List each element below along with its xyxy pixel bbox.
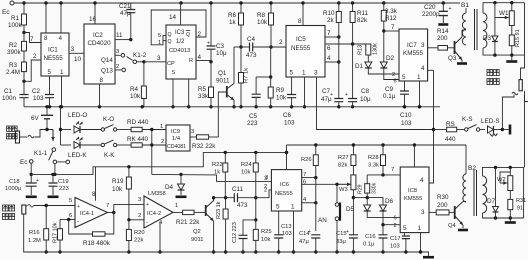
svg-text:47μ: 47μ (299, 239, 309, 245)
svg-text:R14: R14 (437, 28, 449, 35)
transistor Q1 9011 (233, 47, 235, 84)
svg-text:IC3: IC3 (175, 30, 185, 36)
svg-text:D4: D4 (165, 184, 174, 191)
svg-text:+: + (449, 6, 452, 12)
svg-text:R7 1k: R7 1k (244, 68, 250, 83)
svg-text:5: 5 (290, 70, 294, 77)
svg-text:Q2: Q2 (193, 229, 201, 235)
svg-text:R15 91: R15 91 (515, 29, 521, 47)
svg-text:Q: Q (186, 32, 190, 38)
svg-text:C5: C5 (249, 113, 258, 120)
switch K-K (81, 144, 102, 146)
svg-text:1k: 1k (229, 19, 237, 26)
svg-text:R6: R6 (228, 12, 237, 19)
svg-text:103: 103 (282, 231, 292, 237)
svg-text:1/4: 1/4 (172, 136, 181, 142)
svg-text:RK 440: RK 440 (127, 136, 149, 143)
op IC1 NE555 (41, 33, 69, 76)
svg-text:82k: 82k (357, 17, 368, 24)
switch K1-2 (127, 57, 133, 61)
wire right bus below jack (524, 95, 526, 167)
wire rail step to IC6 pin3 (152, 174, 272, 181)
svg-text:3: 3 (116, 49, 119, 55)
svg-text:IC1: IC1 (48, 47, 58, 54)
wire IC1 pin2 (24, 60, 41, 81)
svg-text:7: 7 (391, 167, 394, 173)
svg-text:C17: C17 (390, 236, 401, 242)
wire IC1 pin7 (24, 33, 41, 43)
capacitor C15 (352, 198, 354, 235)
svg-text:Q4: Q4 (448, 223, 457, 229)
wire IC8 pin3 (429, 211, 436, 213)
svg-text:130k: 130k (373, 43, 379, 55)
svg-text:IC6: IC6 (280, 182, 289, 188)
svg-text:8: 8 (100, 77, 104, 84)
svg-text:C11: C11 (232, 186, 244, 193)
svg-text:W1: W1 (499, 10, 509, 17)
svg-text:R27: R27 (338, 155, 349, 161)
wire IC4-2 pin4 (159, 222, 161, 252)
svg-text:R2: R2 (9, 42, 18, 49)
svg-text:D6: D6 (385, 198, 394, 205)
svg-text:C4: C4 (247, 36, 256, 43)
svg-text:10μ: 10μ (360, 96, 371, 103)
svg-text:R30: R30 (437, 194, 449, 201)
transformer B1 (462, 13, 466, 45)
svg-text:R23 1k: R23 1k (216, 201, 222, 219)
svg-text:1: 1 (417, 74, 421, 81)
svg-text:R3: R3 (9, 62, 18, 69)
wire B1 secondary bottom (483, 48, 525, 55)
node Q13 output (115, 69, 121, 71)
switch K-S (465, 128, 468, 131)
svg-text:0.1μ: 0.1μ (363, 242, 374, 248)
svg-text:2: 2 (394, 223, 397, 229)
svg-text:CD4081: CD4081 (167, 144, 186, 150)
svg-text:2: 2 (198, 31, 202, 38)
svg-text:330k: 330k (372, 182, 378, 194)
wire IC2 pin16 (94, 3, 96, 24)
label output socket (487, 70, 493, 76)
svg-text:82k: 82k (338, 163, 347, 169)
svg-text:3.3k: 3.3k (385, 8, 398, 15)
svg-text:R5: R5 (198, 86, 207, 93)
svg-text:R31: R31 (516, 198, 526, 204)
wire IC6 pin6 wiper (302, 183, 339, 185)
resistor R23 (225, 198, 227, 209)
capacitor C16 (382, 225, 384, 235)
resistor R21 (173, 211, 183, 213)
svg-text:Q: Q (168, 32, 172, 38)
wire IC3 pin4 R (196, 60, 211, 62)
svg-text:2: 2 (279, 39, 283, 46)
svg-text:R1: R1 (11, 15, 20, 22)
svg-text:C18: C18 (9, 179, 20, 185)
node Ec supply terminal (10, 1, 14, 5)
diode D6 (367, 198, 383, 205)
svg-text:K-S: K-S (462, 116, 473, 123)
capacitor C20 (442, 3, 444, 11)
ground B1 secondary (511, 55, 513, 60)
svg-text:4: 4 (421, 65, 425, 72)
svg-text:IC4-2: IC4-2 (147, 211, 161, 217)
svg-text:6V: 6V (31, 115, 40, 122)
svg-text:200: 200 (437, 35, 448, 42)
svg-text:-: - (146, 220, 148, 226)
svg-text:223: 223 (247, 120, 258, 127)
svg-text:R28: R28 (368, 155, 379, 161)
wire IC6 pin1 (293, 211, 295, 252)
svg-text:Q: Q (168, 39, 172, 45)
wire B2 secondary top (483, 167, 524, 176)
svg-text:NE555: NE555 (275, 191, 293, 197)
capacitor C12 (243, 220, 256, 235)
resistor R17 (59, 220, 61, 229)
svg-text:6: 6 (394, 79, 397, 85)
svg-text:B2: B2 (468, 165, 476, 172)
svg-text:+: + (345, 92, 348, 98)
svg-text:10k: 10k (257, 19, 268, 26)
svg-text:16: 16 (89, 16, 97, 23)
wire IC1 pin8 (45, 3, 47, 33)
svg-text:6: 6 (303, 180, 306, 186)
svg-text:3: 3 (421, 209, 425, 216)
svg-text:3: 3 (157, 55, 161, 62)
svg-text:+: + (36, 178, 39, 184)
svg-text:2: 2 (138, 213, 141, 219)
capacitor C3 (210, 3, 212, 46)
svg-text:2: 2 (116, 64, 119, 70)
svg-text:7: 7 (303, 172, 306, 178)
svg-text:C16: C16 (365, 234, 376, 240)
resistor R6 (240, 3, 242, 13)
svg-text:103: 103 (401, 120, 412, 127)
wire IC8 pin4 column (428, 70, 434, 183)
svg-text:D1: D1 (355, 63, 364, 70)
svg-text:8: 8 (44, 35, 48, 42)
svg-text:1: 1 (175, 203, 178, 209)
capacitor C7 (334, 99, 343, 102)
svg-text:Q13: Q13 (101, 68, 113, 75)
wire B1 secondary top (483, 3, 525, 13)
svg-text:LM358: LM358 (148, 191, 166, 197)
svg-text:200: 200 (437, 202, 448, 209)
svg-text:KM555: KM555 (404, 196, 422, 202)
svg-text:D3: D3 (483, 35, 492, 42)
wire R28/R29 to IC8 pin7 (367, 174, 400, 176)
svg-text:C10: C10 (400, 112, 412, 119)
svg-text:10: 10 (74, 56, 82, 63)
svg-text:Q14: Q14 (101, 57, 113, 64)
capacitor C5 (256, 76, 271, 78)
svg-text:R22: R22 (212, 162, 223, 168)
svg-text:R4: R4 (130, 86, 139, 93)
svg-text:2: 2 (161, 139, 164, 145)
svg-text:+: + (77, 204, 80, 210)
wire IC5 pin3 to key row (317, 77, 434, 130)
wire IC3 pin3 CP (144, 61, 166, 63)
svg-text:C12 223: C12 223 (232, 222, 238, 243)
svg-text:Ec: Ec (20, 159, 27, 166)
power plug arrow into K1-1 (20, 136, 28, 138)
svg-text:R21 22k: R21 22k (176, 219, 200, 226)
op-amp IC4-1 (75, 198, 108, 228)
svg-text:3: 3 (138, 197, 141, 203)
wire input to IC4-1 pin5 (26, 205, 27, 207)
resistor R11 (352, 3, 354, 12)
svg-text:3: 3 (191, 129, 194, 135)
svg-text:3: 3 (421, 42, 425, 49)
svg-text:7: 7 (391, 24, 395, 31)
wire IC4-1 pin6 (60, 219, 75, 221)
wire IC3 S pins to ground (172, 79, 174, 107)
capacitor C11 (214, 197, 235, 199)
svg-text:3: 3 (264, 176, 267, 182)
svg-text:K1-2: K1-2 (133, 52, 147, 59)
svg-text:RD 440: RD 440 (127, 119, 149, 126)
svg-text:D7: D7 (487, 198, 496, 205)
capacitor C8 (348, 99, 357, 102)
potentiometer W2 (509, 167, 511, 175)
svg-text:6: 6 (394, 216, 397, 222)
resistor R28 (382, 145, 384, 155)
svg-text:1.2M: 1.2M (28, 238, 41, 244)
svg-text:4: 4 (420, 177, 424, 184)
capacitor C13 (278, 211, 280, 235)
transformer B2 (465, 145, 467, 174)
svg-text:C2: C2 (32, 88, 41, 95)
resistor R8 (270, 3, 272, 13)
wire IC1 pin1 (61, 76, 63, 107)
svg-text:3.3k: 3.3k (368, 163, 379, 169)
diode D3 (494, 3, 496, 36)
svg-text:10k: 10k (261, 237, 270, 243)
transistor Q3 (454, 41, 456, 54)
svg-text:1: 1 (158, 40, 161, 46)
svg-text:R8: R8 (257, 12, 266, 19)
wire IC6 pin4 (302, 202, 316, 204)
svg-text:10k: 10k (130, 93, 141, 100)
svg-text:103: 103 (390, 244, 400, 250)
resistor R14 (428, 47, 438, 49)
capacitor C2 (45, 95, 54, 98)
svg-text:K-K: K-K (104, 152, 115, 159)
capacitor C9 (404, 81, 406, 91)
LED LED-K (61, 144, 72, 146)
svg-text:K-O: K-O (103, 116, 114, 123)
switch K-O (81, 129, 102, 131)
wire IC5 pin6 (325, 43, 368, 45)
resistor R32 (190, 136, 197, 138)
wire IC1 pin5 to C2 (49, 76, 51, 95)
svg-text:K1-1: K1-1 (34, 150, 48, 157)
LED LED-S (480, 129, 485, 131)
wire LM358 V+ pin8 (95, 167, 97, 201)
svg-text:5: 5 (403, 225, 407, 232)
svg-text:NE555: NE555 (291, 45, 311, 52)
svg-text:1000μ: 1000μ (5, 186, 21, 192)
capacitor C1 (23, 81, 25, 94)
svg-text:R20: R20 (134, 230, 145, 236)
svg-text:IC5: IC5 (296, 36, 306, 43)
wire IC5 pin1 (304, 77, 306, 107)
svg-text:R: R (189, 58, 193, 64)
capacitor C18 (30, 174, 32, 183)
resistor R25 (255, 220, 257, 230)
wire V+ rail lower (287, 144, 467, 146)
svg-text:LED-K: LED-K (68, 152, 87, 159)
wire IC8 pin1 down (420, 233, 422, 252)
svg-text:473: 473 (237, 202, 248, 209)
svg-text:R26: R26 (301, 157, 312, 163)
svg-text:1: 1 (302, 70, 306, 77)
svg-text:390k: 390k (7, 49, 22, 56)
svg-text:R32 22k: R32 22k (192, 143, 216, 150)
battery 6V (45, 105, 48, 108)
svg-text:CP: CP (167, 61, 175, 67)
svg-text:IC7: IC7 (407, 42, 417, 49)
svg-text:C6: C6 (283, 112, 292, 119)
svg-text:7: 7 (30, 36, 34, 43)
svg-text:Q3: Q3 (448, 55, 457, 62)
svg-text:LED-S: LED-S (481, 118, 500, 125)
svg-text:RS: RS (446, 121, 455, 128)
svg-text:IC9: IC9 (171, 129, 180, 135)
resistor R7 (240, 47, 242, 73)
power socket (16, 131, 20, 143)
terminal bar (502, 129, 508, 131)
svg-text:22k: 22k (134, 238, 143, 244)
op IC6 NE555 (271, 170, 301, 211)
svg-text:9011: 9011 (191, 237, 203, 243)
svg-text:R13: R13 (358, 45, 364, 55)
svg-text:1: 1 (291, 204, 295, 211)
resistor R22 (224, 152, 226, 163)
resistor R15 (511, 26, 513, 36)
wire IC1 pin4 (60, 3, 62, 33)
wire IC1 pin3 to IC2 pin10 (69, 52, 84, 54)
capacitor C19 (51, 173, 54, 176)
wire IC2 pin8 to rail (99, 84, 101, 107)
svg-text:C19: C19 (58, 179, 69, 185)
input socket (22, 205, 26, 214)
svg-text:2: 2 (392, 72, 395, 78)
svg-text:W3: W3 (339, 187, 348, 193)
svg-text:7: 7 (106, 203, 109, 209)
wire right bus to output jack (521, 3, 525, 80)
svg-text:+: + (146, 202, 149, 208)
diode D1 (367, 55, 369, 62)
pushbutton AN (336, 184, 338, 202)
wire B2 secondary bottom (483, 213, 524, 218)
switch K1-1 (52, 148, 56, 152)
wire IC3 pins5,1 tie (151, 10, 206, 45)
svg-text:D5: D5 (346, 206, 355, 213)
resistor RK 440 (117, 144, 131, 146)
svg-text:5: 5 (48, 69, 52, 76)
svg-text:R17 10k: R17 10k (53, 222, 59, 243)
diode D4 (180, 174, 182, 184)
resistor R5 (210, 62, 212, 87)
svg-text:1: 1 (418, 225, 422, 232)
svg-text:14: 14 (169, 14, 177, 21)
wire upper ground rail (24, 106, 440, 108)
svg-text:2.4M: 2.4M (6, 69, 20, 76)
svg-text:C13: C13 (281, 224, 292, 230)
svg-text:1k: 1k (214, 170, 220, 176)
diode D7 (495, 167, 497, 206)
svg-text:100n: 100n (2, 95, 17, 102)
svg-text:3: 3 (71, 46, 75, 53)
svg-text:R29: R29 (358, 184, 364, 194)
svg-text:1: 1 (60, 69, 64, 76)
op IC3 CD4013 (166, 25, 196, 79)
svg-text:47μ: 47μ (321, 96, 332, 103)
capacitor C6 (291, 77, 293, 95)
wire top supply rail (14, 2, 466, 4)
svg-text:11: 11 (116, 32, 123, 39)
svg-text:CD4020: CD4020 (88, 40, 112, 47)
svg-text:5: 5 (158, 33, 161, 39)
capacitor C4 (234, 46, 250, 48)
op IC8 KM555 (400, 167, 429, 233)
svg-text:6: 6 (69, 213, 72, 219)
svg-text:6: 6 (327, 45, 331, 52)
resistor R2 (23, 33, 25, 42)
wire rail step up to V+ rail (286, 145, 288, 152)
resistor R29 (353, 197, 367, 199)
capacitor C17 (404, 233, 406, 236)
capacitor C21 (130, 3, 132, 10)
svg-text:2: 2 (264, 188, 267, 194)
svg-text:9011: 9011 (216, 78, 230, 85)
svg-text:10k: 10k (276, 95, 287, 102)
resistor R13 (366, 44, 371, 55)
wire IC6 pin8 (286, 152, 288, 169)
svg-text:223: 223 (59, 186, 69, 192)
svg-text:1/2: 1/2 (176, 39, 185, 45)
wire IC2 pin11 (115, 39, 131, 41)
transistor Q2 9011 (205, 205, 207, 216)
resistor RD 440 (117, 129, 131, 131)
wire IC5 pin4 (325, 61, 339, 63)
svg-text:5: 5 (69, 198, 72, 204)
resistor R12 (383, 3, 385, 10)
svg-text:4: 4 (327, 55, 331, 62)
svg-text:R25: R25 (261, 229, 272, 235)
svg-text:R11: R11 (357, 10, 369, 17)
resistor R27 + pot W3 (352, 145, 354, 155)
resistor R10 (338, 3, 340, 12)
svg-text:5: 5 (276, 204, 280, 211)
svg-text:R24: R24 (241, 162, 252, 168)
resistor R31 (509, 191, 511, 200)
svg-text:R19: R19 (112, 178, 124, 185)
resistor R18 feedback (69, 220, 93, 235)
wire IC4-1 out to IC4-2 pin3 (114, 204, 144, 212)
resistor R9 (270, 47, 272, 87)
LED bus (59, 105, 62, 108)
svg-text:473: 473 (246, 52, 257, 59)
svg-text:C3: C3 (216, 43, 225, 50)
resistor RS 440 (434, 129, 447, 131)
wire IC5 pin8 (302, 3, 304, 26)
svg-text:Ec: Ec (2, 9, 10, 16)
resistor R26 (315, 145, 317, 155)
svg-text:10k: 10k (241, 170, 250, 176)
svg-text:R9: R9 (276, 87, 285, 94)
svg-text:2200p: 2200p (422, 11, 440, 18)
